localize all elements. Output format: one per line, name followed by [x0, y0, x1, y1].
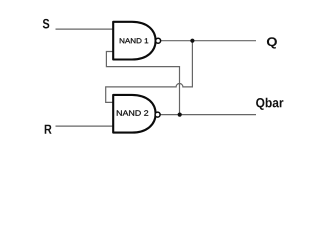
- nand-gate U2 bubble: [155, 112, 160, 117]
- wire R input: [56, 125, 114, 127]
- label Qbar: [256, 98, 283, 110]
- wire Qbar output: [160, 114, 256, 116]
- label NAND 1: [120, 38, 148, 43]
- nand-gate U1 body: [113, 22, 155, 60]
- label S: [43, 19, 50, 29]
- nand-gate U1 bubble: [156, 38, 161, 43]
- wire feedback Q to NAND2 input B with hop: [106, 41, 193, 103]
- nand-gate U2 body: [113, 95, 155, 133]
- wire S input: [56, 28, 114, 30]
- node junction on Qbar line: [178, 113, 182, 117]
- node junction on Q line: [190, 39, 194, 43]
- wire feedback Qbar to NAND1 input B: [106, 52, 179, 115]
- label R: [45, 125, 52, 134]
- label Q: [267, 37, 277, 48]
- label NAND 2: [117, 110, 148, 115]
- wire Q output: [161, 40, 256, 42]
